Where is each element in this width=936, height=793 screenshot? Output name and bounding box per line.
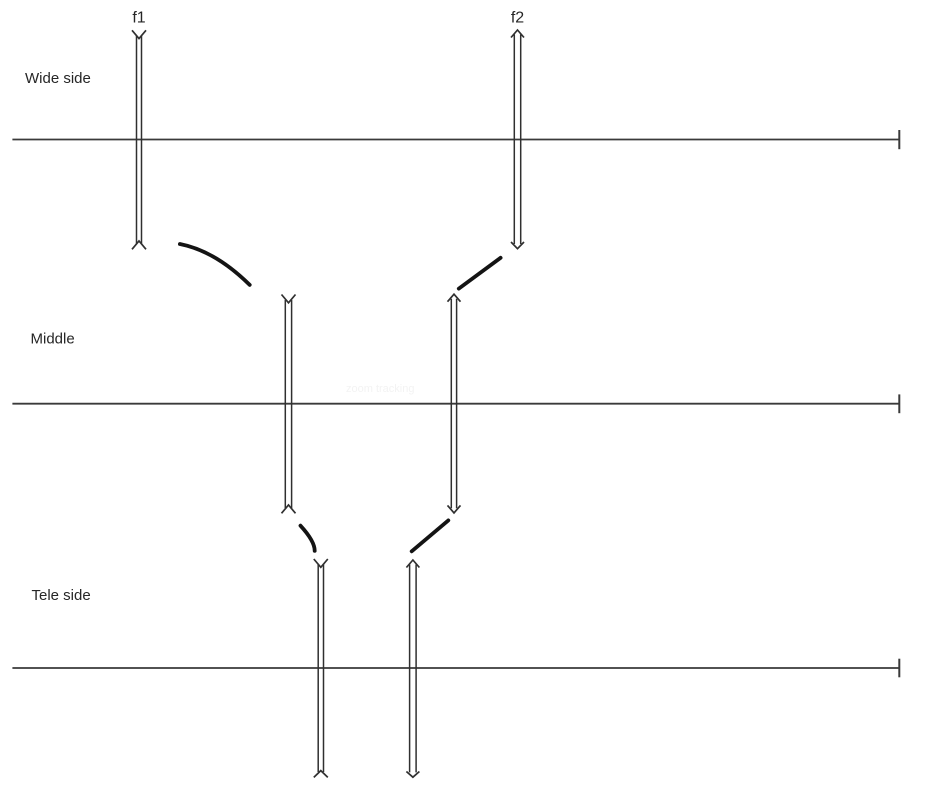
- optical axis Middle: [12, 403, 899, 405]
- lens f2 Middle (convex): [448, 294, 461, 513]
- lens f1 Tele (concave): [314, 559, 328, 777]
- image-plane tick Tele: [898, 659, 900, 678]
- svg-text:Tele side: Tele side: [32, 587, 91, 604]
- svg-text:f2: f2: [511, 9, 524, 26]
- motion arrow f1 Middle to Tele (curved stroke): [301, 526, 315, 551]
- svg-text:zoom tracking: zoom tracking: [346, 383, 414, 395]
- lens f1 Wide (concave): [132, 30, 146, 249]
- optical axis Wide: [12, 139, 899, 141]
- motion arrow f2 Middle to Tele (slanted stroke): [412, 520, 449, 551]
- image-plane tick Wide: [898, 130, 900, 149]
- optical axis Tele: [12, 667, 899, 669]
- svg-text:f1: f1: [132, 9, 145, 26]
- lens f2 Wide (convex): [511, 30, 524, 249]
- lens f2 Tele (convex): [406, 560, 419, 777]
- motion arrow f2 Wide to Middle (slanted stroke): [459, 258, 501, 289]
- motion arrow f1 Wide to Middle (curved stroke): [180, 244, 250, 285]
- image-plane tick Middle: [898, 394, 900, 413]
- svg-text:Wide side: Wide side: [25, 70, 91, 87]
- svg-text:Middle: Middle: [31, 331, 75, 348]
- lens f1 Middle (concave): [282, 295, 296, 514]
